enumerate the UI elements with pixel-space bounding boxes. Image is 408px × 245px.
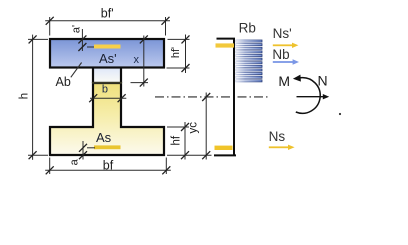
concrete compression zone Ab (web part): [93, 68, 121, 84]
svg-text:Rb: Rb: [239, 21, 256, 36]
rebar As': [94, 45, 121, 49]
dimension a' (top cover): [82, 29, 94, 51]
svg-text:yc: yc: [188, 122, 200, 134]
svg-text:b: b: [102, 83, 108, 95]
svg-text:Ab: Ab: [56, 75, 71, 89]
stress diagram axis bracket: [217, 38, 236, 40]
svg-text:hf': hf': [170, 47, 182, 58]
dot: [339, 113, 341, 115]
force bar As' (top, yellow): [216, 43, 235, 47]
svg-text:N: N: [318, 73, 328, 89]
svg-text:Nb: Nb: [272, 47, 289, 62]
top flange: [50, 39, 164, 68]
neutral axis line across web: [92, 82, 122, 84]
svg-text:bf': bf': [101, 7, 114, 21]
dimension b (web width): [90, 97, 126, 99]
tension zone (web + bottom flange): [50, 83, 164, 155]
moment arc arrow: [296, 78, 320, 114]
svg-text:hf: hf: [170, 135, 182, 145]
svg-text:x: x: [134, 54, 140, 66]
dimension hf right of bottom flange: [167, 122, 212, 160]
svg-text:Ns': Ns': [273, 26, 292, 41]
svg-text:As': As': [99, 51, 117, 66]
dimension x (compression depth): [131, 36, 149, 87]
rebar As: [94, 145, 121, 149]
svg-text:As: As: [96, 130, 112, 145]
centerline (dash-dot): [155, 96, 269, 98]
web side borders (compression part): [92, 68, 94, 84]
svg-text:Ns: Ns: [269, 129, 286, 144]
svg-text:a': a': [71, 25, 83, 33]
dimension hf' right of top flange: [167, 35, 190, 74]
dimension yc: [205, 93, 207, 160]
svg-text:bf: bf: [103, 158, 114, 172]
dimension h left: [28, 35, 48, 160]
svg-text:M: M: [278, 73, 290, 89]
svg-text:h: h: [19, 93, 31, 99]
dimension bf bottom: [45, 158, 171, 175]
svg-text:a: a: [69, 158, 81, 165]
force bar As (bottom, yellow): [215, 146, 233, 150]
dimension a (bottom cover): [83, 141, 95, 160]
Rb stress block (hatched blue bars): [236, 40, 262, 82]
dimension bf' top: [45, 17, 170, 36]
N force arrow: [297, 96, 324, 98]
leader line Ab: [71, 63, 82, 78]
